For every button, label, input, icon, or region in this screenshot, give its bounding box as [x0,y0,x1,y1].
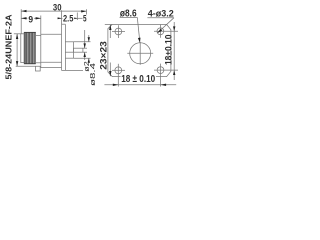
thread hatching [24,32,35,63]
node: thread crest lines [24,33,26,64]
svg-text:18±0.10: 18±0.10 [164,34,174,65]
wire: phi2 dim line segments [84,30,86,48]
background [0,0,186,96]
node: body section D [41,33,62,35]
arrowheads [16,10,176,86]
wire: pin edge extensions right [83,47,87,49]
wire: big circle centerlines [127,52,153,54]
node: flange plate (side view) [61,24,63,70]
wire: stub edge extensions right [73,41,90,43]
svg-text:5: 5 [83,14,87,24]
svg-text:5/8-24UNEF-2A: 5/8-24UNEF-2A [4,15,14,80]
svg-text:ø8.4: ø8.4 [88,63,97,86]
node: hole bottom-right [157,67,164,74]
label: 9 (with white gap on dim line) [28,15,35,23]
5/8 dim arrows [16,34,18,39]
wire: phi8.4 dim line segments [88,35,90,42]
wire: top-left extension tick [105,23,112,25]
node: threaded section outline [24,32,35,64]
svg-text:18 ± 0.10: 18 ± 0.10 [121,74,155,85]
node: hole top-right [157,28,164,35]
wire: bottom 18 dim line [104,84,176,86]
4-phi3.2 leader arrowhead [157,29,162,33]
wire: flange bottom + extension right [62,69,84,71]
wire: 4-phi3.2 leader [147,17,174,19]
svg-text:30: 30 [53,2,62,13]
bottom 18 arrows (outside) [113,84,119,86]
node: hole top-left [115,28,122,35]
9 dim arrows [21,17,26,19]
node: rear stub [65,41,73,43]
node: square flange with chamfered corners [108,24,171,76]
wire: 5/8-24UNEF-2A dimension line [16,34,18,67]
wire: extension line y=66.3 (5/8 dim bottom) [16,65,41,67]
node: hole bottom-left [115,67,122,74]
phi8.4 arrows [88,37,90,42]
node: lower solder tab rectangle [36,66,41,71]
wire: extension x=86.5 (30 dim right) [86,9,88,22]
wire: 23x23 vertical dim line (inside, broken) [109,25,111,38]
node: body section A (mating step) [21,34,24,63]
2.5 / 5 dim arrows [58,17,62,19]
label: 18+-0.10 bottom (white bg over flange edge) [121,74,156,83]
wire: 9 dimension line [21,17,27,19]
svg-text:4-ø3.2: 4-ø3.2 [148,8,174,19]
wire: extension x=77.3 [76,13,78,21]
30 dim arrows [21,10,26,12]
wire: 30 dimension line [21,10,86,12]
23x23 arrows [109,25,111,30]
node: relief groove section C [36,35,41,37]
svg-text:23×23: 23×23 [97,41,108,70]
wire: 2.5/5 dim segments [58,17,63,19]
wire: extension line left body edge up [20,9,22,34]
wire: phi8.6 leader [120,16,138,18]
node: big circle phi8.6 [130,43,151,64]
wire: extension line x=40.8 (thread end, runs into body) [40,16,42,68]
right 18 arrows (outside) [173,26,175,31]
wire: extension line y=33.8 left [14,33,21,35]
svg-text:2.5: 2.5 [63,14,73,24]
phi2 arrows [84,43,86,48]
wire: right 18 dim vertical line [173,22,175,80]
label: 5 [83,15,87,23]
phi8.6 leader arrowhead [138,38,141,43]
svg-text:9: 9 [28,14,33,24]
label: 2.5 [63,15,75,23]
node: center pin [73,48,83,52]
wire: extension flange front up [60,10,62,24]
wire: lower body line [41,67,62,69]
svg-text:ø8.6: ø8.6 [120,8,137,19]
